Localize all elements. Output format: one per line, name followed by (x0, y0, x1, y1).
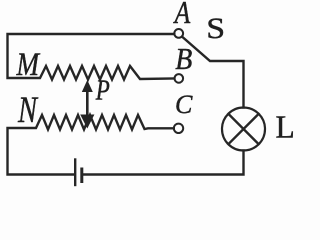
slider arrow P shaft (86, 89, 89, 117)
node C terminal circle (174, 124, 183, 133)
wire N row with resistor N zigzag and left-bottom branch (8, 115, 174, 175)
switch S blade and wire to lamp (182, 37, 243, 108)
svg-text:N: N (17, 91, 39, 131)
node A terminal circle (174, 29, 183, 38)
svg-text:C: C (175, 90, 193, 119)
svg-text:B: B (175, 43, 192, 77)
battery short plate (80, 169, 83, 182)
lamp L circle (222, 108, 265, 151)
slider arrow up head (82, 80, 93, 92)
wire top loop with resistor M zigzag (8, 34, 175, 80)
svg-text:L: L (276, 110, 295, 145)
svg-text:M: M (16, 45, 41, 82)
battery long plate (74, 160, 76, 186)
node B terminal circle (175, 74, 184, 83)
svg-text:A: A (173, 0, 191, 31)
slider arrow down head (80, 115, 94, 129)
svg-text:P: P (95, 74, 110, 106)
svg-text:S: S (206, 11, 225, 45)
lamp cross (228, 114, 258, 144)
wire lamp to bottom right corner (83, 151, 244, 175)
